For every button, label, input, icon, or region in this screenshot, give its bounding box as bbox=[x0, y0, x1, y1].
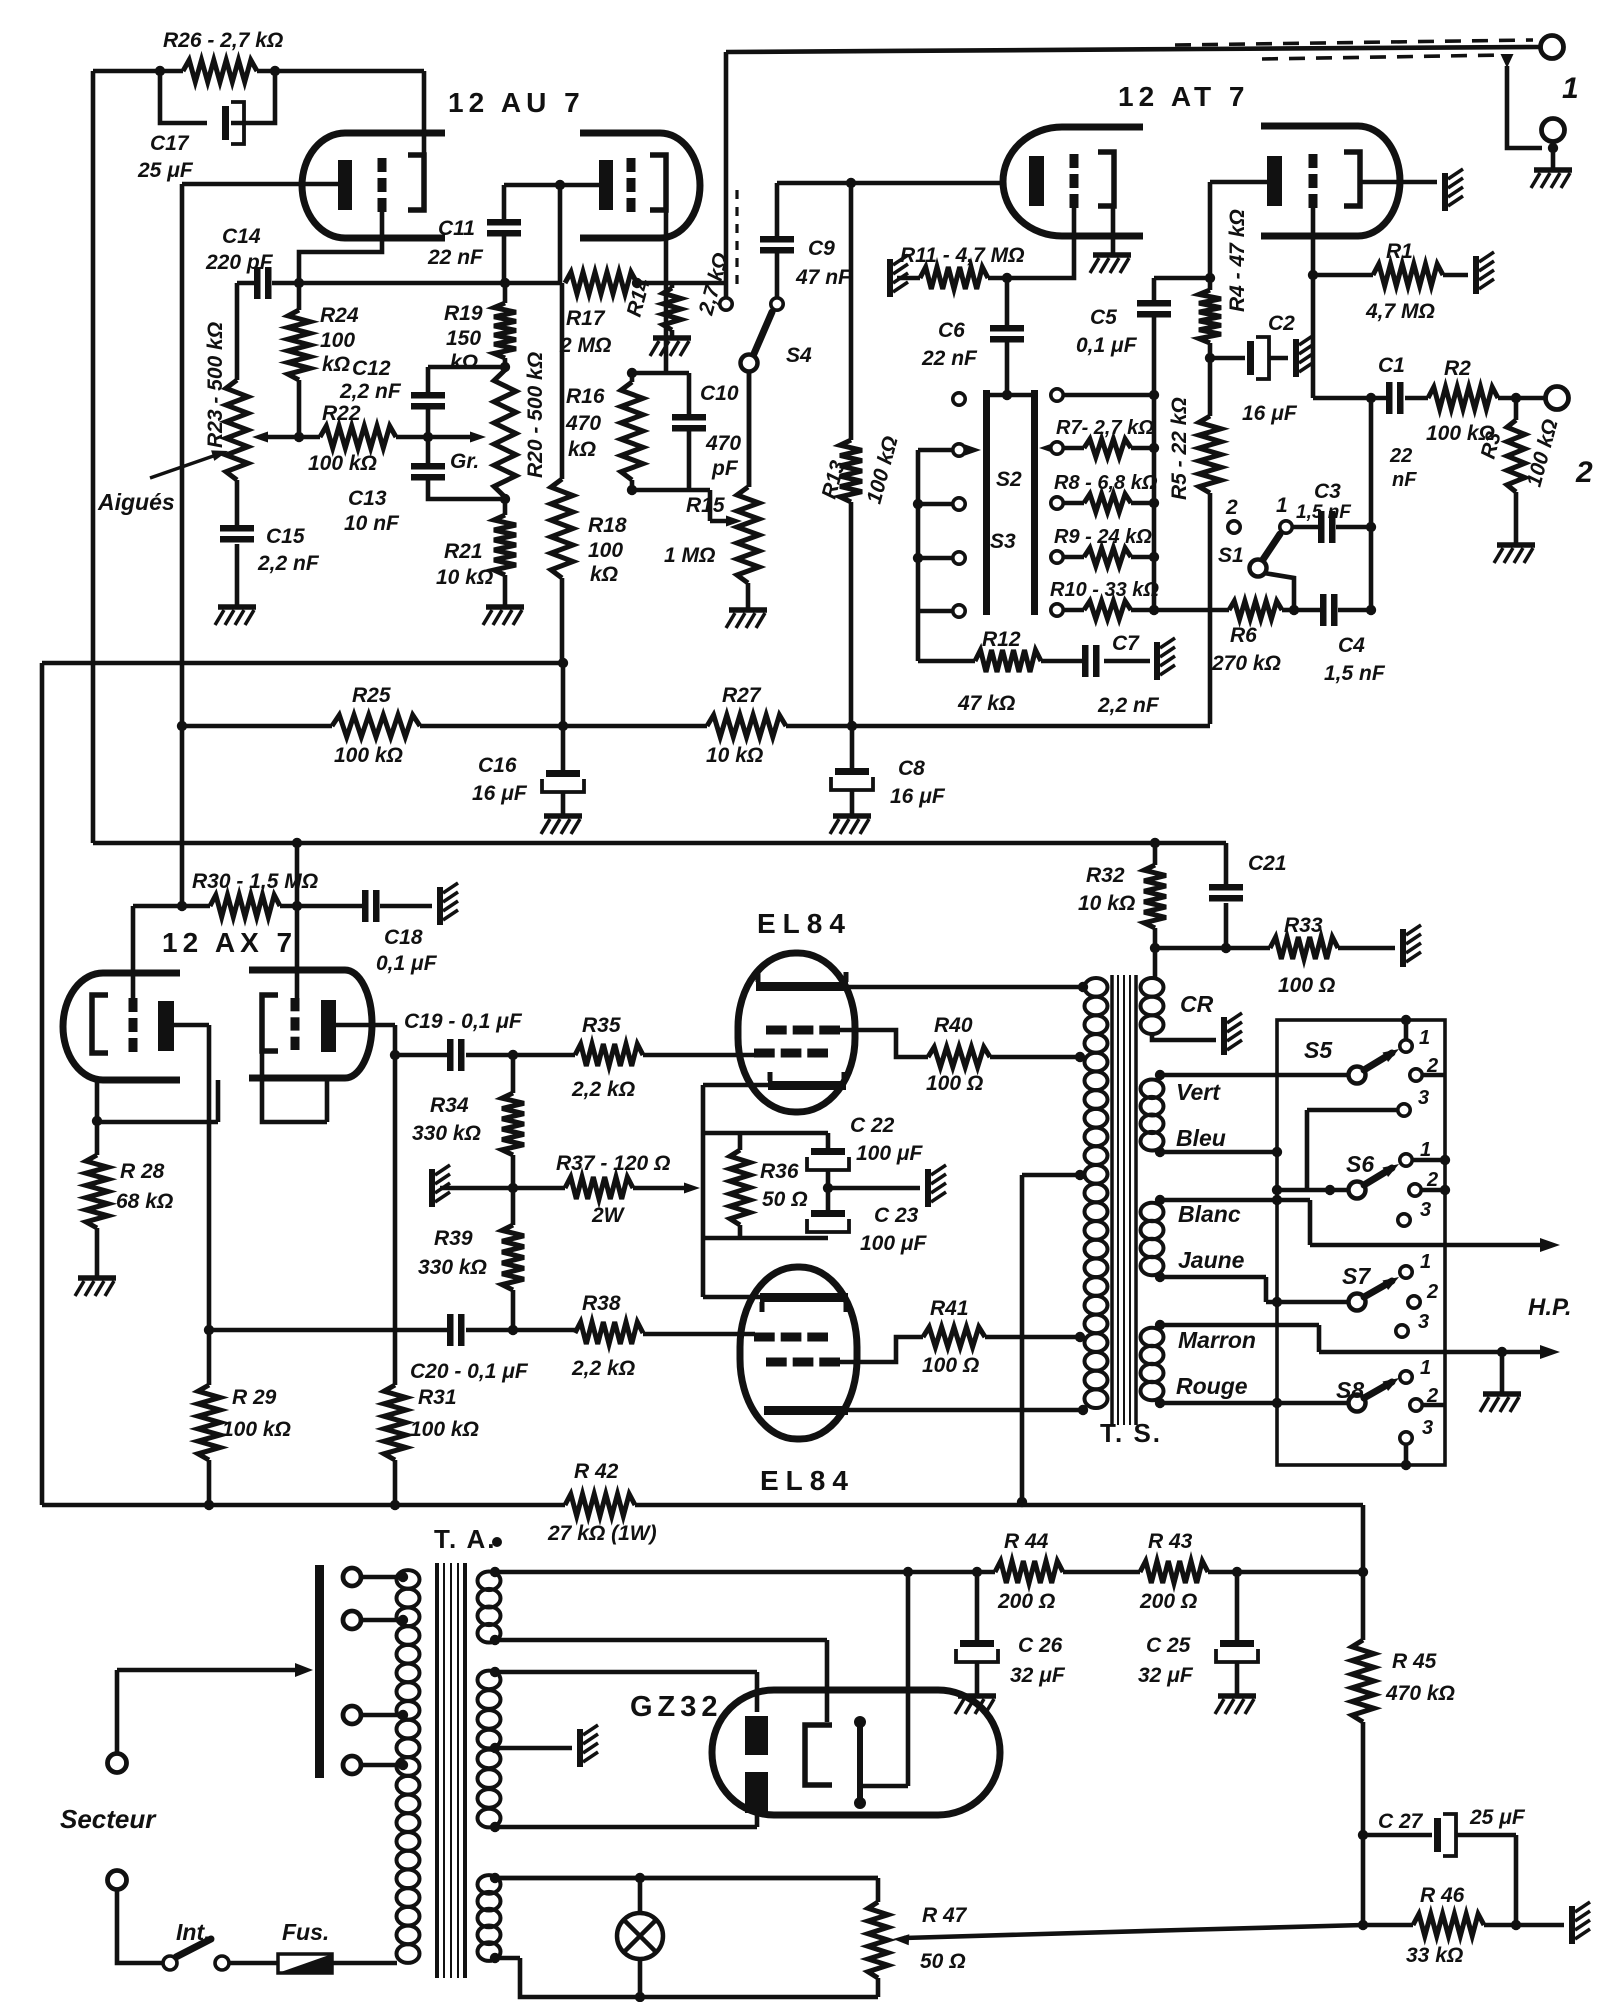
switch S5 lever bbox=[1364, 1053, 1392, 1070]
svg-text:100 μF: 100 μF bbox=[856, 1142, 924, 1165]
chassis C7 bbox=[1154, 642, 1160, 680]
capacitor C27 bbox=[1434, 1818, 1441, 1852]
switch Int lever bbox=[176, 1939, 211, 1957]
node lamp top bbox=[635, 1873, 645, 1883]
transformer TA heater63 winding bbox=[478, 1875, 501, 1894]
node row1 bbox=[1149, 443, 1159, 453]
svg-text:R5 - 22 kΩ: R5 - 22 kΩ bbox=[1168, 397, 1191, 500]
wire input shield dash bbox=[735, 190, 738, 292]
svg-text:470: 470 bbox=[565, 412, 601, 435]
wire U2b plate lead bbox=[1360, 180, 1437, 185]
node y183 R13 bbox=[846, 178, 856, 188]
svg-text:C17: C17 bbox=[150, 132, 190, 155]
wire fuse to winding bbox=[332, 1961, 397, 1966]
triode U2b grid bbox=[1309, 154, 1318, 168]
svg-text:3: 3 bbox=[1418, 1087, 1429, 1109]
node R6 right bbox=[1289, 605, 1299, 615]
wire secteur live drop bbox=[115, 1670, 120, 1752]
wire S6-2 right bbox=[1421, 1188, 1445, 1193]
wire R36 rails bbox=[703, 1133, 828, 1238]
svg-text:C 23: C 23 bbox=[874, 1204, 919, 1227]
node S6 box left bbox=[1272, 1185, 1282, 1195]
node TS bottom bbox=[1078, 1405, 1088, 1415]
svg-text:C10: C10 bbox=[700, 382, 739, 405]
wire R41 right bbox=[985, 1335, 1080, 1340]
transformer TS CR winding bbox=[1141, 978, 1164, 997]
svg-text:200 Ω: 200 Ω bbox=[1139, 1590, 1197, 1613]
wire U3a cathode lead bbox=[174, 1025, 209, 1330]
terminal TA tap1 bbox=[343, 1568, 361, 1586]
switch S3 contact 4 bbox=[1051, 604, 1063, 616]
svg-text:C 22: C 22 bbox=[850, 1114, 895, 1137]
svg-text:R1: R1 bbox=[1386, 240, 1413, 263]
switch S8 contact 2 bbox=[1410, 1399, 1422, 1411]
svg-text:R16: R16 bbox=[566, 385, 605, 408]
wire C6 bbox=[1005, 278, 1010, 393]
svg-text:47 kΩ: 47 kΩ bbox=[957, 692, 1015, 715]
ground jacks bbox=[1534, 167, 1572, 173]
node C27 left bbox=[1358, 1830, 1368, 1840]
pentode V1 envelope bbox=[738, 953, 855, 1112]
node C21 bottom bbox=[1221, 943, 1231, 953]
ground C25 bbox=[1218, 1693, 1256, 1699]
wire VB bottom lead bbox=[1160, 1150, 1277, 1155]
capacitor C3 bbox=[1318, 511, 1325, 543]
svg-text:C 25: C 25 bbox=[1146, 1634, 1191, 1657]
svg-text:R35: R35 bbox=[582, 1014, 621, 1037]
svg-text:100 kΩ: 100 kΩ bbox=[410, 1418, 479, 1441]
node TA HT top bbox=[490, 1667, 500, 1677]
svg-text:22 nF: 22 nF bbox=[921, 347, 978, 370]
node MR top bbox=[1155, 1320, 1165, 1330]
svg-text:10 kΩ: 10 kΩ bbox=[436, 566, 493, 589]
svg-text:C8: C8 bbox=[898, 757, 925, 780]
ground R14 bbox=[653, 335, 691, 341]
wire HP arrow B bbox=[1319, 1350, 1548, 1355]
wire R22 left lead bbox=[262, 435, 320, 440]
node R16 bottom bbox=[627, 485, 637, 495]
arrow Aigues bbox=[150, 453, 222, 478]
node TA sec1 bottom bbox=[490, 1635, 500, 1645]
wire U1a plate to B+ bbox=[422, 71, 427, 155]
switch box outline bbox=[1277, 1020, 1445, 1465]
resistor R37 bbox=[565, 1177, 633, 1199]
ground R3 bbox=[1497, 542, 1535, 548]
wire S2 left bus bbox=[918, 450, 952, 661]
arrow input gnd bbox=[1501, 54, 1514, 68]
capacitor C1 bbox=[1386, 382, 1393, 414]
node R18 bottom bbox=[558, 658, 568, 668]
switch S6 contact 3 bbox=[1398, 1214, 1410, 1226]
transformer TS core bbox=[1110, 975, 1114, 1425]
wire R4 R5 bbox=[1208, 343, 1213, 416]
switch S4 contact b bbox=[771, 298, 783, 310]
svg-text:pF: pF bbox=[711, 457, 739, 480]
triode U2a grid bbox=[1070, 154, 1079, 168]
svg-text:C18: C18 bbox=[384, 926, 423, 949]
wire C8 bbox=[850, 726, 855, 814]
svg-text:R 46: R 46 bbox=[1420, 1884, 1465, 1907]
svg-text:CR: CR bbox=[1180, 991, 1214, 1017]
node R17 right bbox=[632, 278, 642, 288]
svg-text:25 μF: 25 μF bbox=[1469, 1806, 1526, 1829]
svg-text:C11: C11 bbox=[438, 217, 475, 240]
capacitor C18 bbox=[362, 890, 369, 922]
svg-text:nF: nF bbox=[1392, 469, 1417, 491]
svg-text:R33: R33 bbox=[1284, 914, 1323, 937]
svg-text:Blanc: Blanc bbox=[1178, 1201, 1241, 1227]
svg-text:C2: C2 bbox=[1268, 312, 1295, 335]
node C2 bbox=[1205, 353, 1215, 363]
wire C2 link bbox=[1210, 356, 1288, 361]
terminal jack1b bbox=[1542, 119, 1565, 142]
svg-text:Rouge: Rouge bbox=[1176, 1373, 1248, 1399]
node TS tap R41 bbox=[1075, 1332, 1085, 1342]
svg-text:200 Ω: 200 Ω bbox=[997, 1590, 1055, 1613]
svg-text:33 kΩ: 33 kΩ bbox=[1406, 1944, 1463, 1967]
wire R25 line bbox=[182, 724, 563, 729]
wire S5-1 up bbox=[1404, 1020, 1409, 1040]
pentode V1 g2 bbox=[766, 1026, 787, 1035]
switch S3 contact 2 bbox=[1051, 497, 1063, 509]
node C26 top bbox=[972, 1567, 982, 1577]
svg-text:32 μF: 32 μF bbox=[1138, 1664, 1194, 1687]
terminal secteur 1 bbox=[108, 1754, 127, 1773]
switch Int contact a bbox=[163, 1956, 177, 1970]
wire y183 line bbox=[777, 181, 1003, 186]
svg-text:10 kΩ: 10 kΩ bbox=[706, 744, 763, 767]
wire R47 wiper line bbox=[904, 1925, 1363, 1938]
wire C26 bbox=[975, 1572, 980, 1694]
pentode V2 plate bbox=[764, 1406, 848, 1415]
wire C19 line bbox=[395, 1053, 513, 1058]
svg-text:R12: R12 bbox=[982, 628, 1021, 651]
resistor R27 bbox=[707, 715, 786, 737]
rectifier GZ32 anode1 bbox=[745, 1716, 768, 1755]
wire Gr wiper bbox=[428, 435, 472, 440]
svg-text:2: 2 bbox=[1426, 1281, 1438, 1303]
svg-text:12 AU 7: 12 AU 7 bbox=[448, 87, 585, 118]
wire U2a plate gnd bbox=[1111, 206, 1116, 253]
wire CT feed bbox=[1020, 1175, 1025, 1502]
svg-text:1: 1 bbox=[1419, 1027, 1430, 1049]
node C16 top bbox=[558, 721, 568, 731]
svg-text:470: 470 bbox=[705, 432, 741, 455]
wire U3a plate drop bbox=[95, 1080, 100, 1121]
resistor R7 bbox=[1063, 446, 1154, 451]
switch Int contact b bbox=[215, 1956, 229, 1970]
node S8-3 bottom bbox=[1401, 1460, 1411, 1470]
wire secteur live bbox=[117, 1668, 303, 1673]
wire V1 g2 lead bbox=[840, 1030, 928, 1057]
wire S5-2 right bbox=[1422, 1073, 1445, 1078]
node cathode2 bbox=[555, 180, 565, 190]
node MR box left bbox=[1272, 1398, 1282, 1408]
node R45 top bbox=[1358, 1567, 1368, 1577]
wire bus y843 bbox=[93, 71, 1226, 843]
switch S4 lever bbox=[753, 312, 772, 356]
wire R38 line bbox=[513, 1330, 755, 1334]
wire GZ32 cathode lead bbox=[860, 1572, 908, 1786]
svg-text:C4: C4 bbox=[1338, 634, 1365, 657]
wire bus x182 bbox=[180, 184, 185, 905]
wire S6-1 right bbox=[1412, 1158, 1445, 1163]
svg-text:S3: S3 bbox=[990, 530, 1016, 553]
svg-text:12 AT 7: 12 AT 7 bbox=[1118, 81, 1249, 112]
svg-text:32 μF: 32 μF bbox=[1010, 1664, 1066, 1687]
node BJ top bbox=[1155, 1195, 1165, 1205]
switch S1 pole bbox=[1250, 560, 1267, 577]
svg-text:Vert: Vert bbox=[1176, 1079, 1221, 1105]
node TA tap1 bbox=[398, 1572, 408, 1582]
capacitor C9 bbox=[760, 236, 794, 243]
triode U2a cathode bbox=[1029, 156, 1044, 206]
capacitor C19 bbox=[447, 1039, 454, 1071]
node VB top bbox=[1155, 1070, 1165, 1080]
switch S3 wiper arrow bbox=[1048, 446, 1050, 450]
svg-text:100 kΩ: 100 kΩ bbox=[222, 1418, 291, 1441]
wire C3 right bbox=[1336, 525, 1371, 530]
svg-text:3: 3 bbox=[1418, 1311, 1429, 1333]
switch S8 pole bbox=[1349, 1395, 1366, 1412]
svg-text:R34: R34 bbox=[430, 1094, 469, 1117]
triode U2b cathode bbox=[1267, 156, 1282, 206]
svg-text:R18: R18 bbox=[588, 514, 627, 537]
wire y282 line bbox=[299, 281, 560, 286]
wire C12 top link bbox=[428, 365, 505, 370]
rectifier GZ32 anode2 bbox=[745, 1772, 768, 1813]
node R28 top bbox=[92, 1116, 102, 1126]
svg-text:2,2 kΩ: 2,2 kΩ bbox=[571, 1357, 635, 1380]
resistor R1 bbox=[1373, 264, 1443, 286]
transformer TA core bbox=[435, 1563, 439, 1978]
transformer TS VertBleu winding bbox=[1141, 1080, 1164, 1099]
triode U3b envelope bbox=[249, 970, 372, 1078]
svg-text:3: 3 bbox=[1422, 1417, 1433, 1439]
potentiometer R23 bbox=[226, 380, 248, 480]
svg-text:27 kΩ (1W): 27 kΩ (1W) bbox=[547, 1522, 657, 1545]
capacitor C25 bbox=[1220, 1640, 1254, 1647]
svg-text:330 kΩ: 330 kΩ bbox=[412, 1122, 481, 1145]
wire U1a grid jog bbox=[299, 212, 382, 283]
chassis C2 bbox=[1293, 339, 1299, 377]
resistor R3 bbox=[1514, 398, 1519, 543]
resistor R26 bbox=[183, 60, 257, 82]
resistor R46 bbox=[1413, 1914, 1484, 1936]
svg-text:2: 2 bbox=[1575, 456, 1593, 489]
svg-text:16 μF: 16 μF bbox=[472, 782, 528, 805]
wire C22 gnd bbox=[828, 1186, 920, 1191]
wire U3b cathode jog bbox=[262, 1051, 327, 1122]
svg-text:47 nF: 47 nF bbox=[795, 266, 852, 289]
switch S5 contact 1 bbox=[1400, 1040, 1412, 1052]
svg-text:R 28: R 28 bbox=[120, 1160, 165, 1183]
node TA HT bottom bbox=[490, 1822, 500, 1832]
wire S2S3 top link bbox=[986, 393, 1034, 398]
triode U3a cathode bbox=[158, 1001, 174, 1051]
svg-text:1: 1 bbox=[1420, 1357, 1431, 1379]
ground R15 bbox=[729, 607, 767, 613]
svg-text:R7- 2,7 kΩ: R7- 2,7 kΩ bbox=[1056, 417, 1154, 439]
node R32 top bbox=[1150, 838, 1160, 848]
triode U3a plate bbox=[92, 995, 108, 1053]
wire S8-3 down bbox=[1404, 1444, 1409, 1465]
svg-text:50 Ω: 50 Ω bbox=[920, 1950, 966, 1973]
chassis R46 bbox=[1569, 1906, 1575, 1944]
svg-text:R40: R40 bbox=[934, 1014, 973, 1037]
node C25 top bbox=[1232, 1567, 1242, 1577]
wire input dash above bbox=[1175, 40, 1533, 45]
svg-text:Secteur: Secteur bbox=[60, 1804, 157, 1834]
capacitor C2 bbox=[1247, 341, 1254, 375]
switch S1 contact 2 bbox=[1228, 521, 1240, 533]
svg-text:EL84: EL84 bbox=[760, 1465, 855, 1496]
wire S4 input line bbox=[724, 52, 729, 298]
svg-text:100 Ω: 100 Ω bbox=[926, 1072, 983, 1095]
svg-text:R39: R39 bbox=[434, 1227, 473, 1250]
svg-text:3: 3 bbox=[1420, 1199, 1431, 1221]
node row2 bbox=[1149, 498, 1159, 508]
svg-text:100 Ω: 100 Ω bbox=[1278, 974, 1335, 997]
resistor R4 bbox=[1199, 290, 1221, 343]
resistor R30 bbox=[210, 895, 280, 917]
svg-text:4,7 MΩ: 4,7 MΩ bbox=[1365, 300, 1435, 323]
node TA HT ct bbox=[490, 1743, 500, 1753]
pentode V1 plate bbox=[756, 982, 848, 991]
capacitor C12 bbox=[411, 392, 445, 399]
svg-text:R 43: R 43 bbox=[1148, 1530, 1193, 1553]
svg-text:50 Ω: 50 Ω bbox=[762, 1188, 808, 1211]
svg-text:R27: R27 bbox=[722, 684, 762, 707]
wire right grid drop bbox=[295, 843, 300, 1000]
triode U1b plate bbox=[650, 155, 666, 210]
capacitor C11 bbox=[487, 219, 521, 226]
chassis R37 bbox=[429, 1169, 435, 1207]
pentode V1 cathode bbox=[768, 1081, 846, 1090]
switch S7 pole bbox=[1349, 1294, 1366, 1311]
resistor R22 bbox=[320, 426, 396, 448]
svg-text:2,2 nF: 2,2 nF bbox=[339, 380, 402, 403]
triode U1a cathode bbox=[338, 160, 352, 210]
switch S2 contact 0 bbox=[953, 393, 965, 405]
wire C9 bbox=[775, 183, 780, 297]
svg-text:R6: R6 bbox=[1230, 624, 1257, 647]
node VB box left bbox=[1272, 1147, 1282, 1157]
svg-text:100 kΩ: 100 kΩ bbox=[334, 744, 403, 767]
resistor R14 bbox=[670, 283, 675, 336]
wire R46 line bbox=[1363, 1923, 1564, 1928]
wire R12 line bbox=[918, 659, 1150, 664]
terminal TA tap2 bbox=[343, 1611, 361, 1629]
svg-text:S8: S8 bbox=[1336, 1377, 1364, 1403]
wire R5 down bbox=[1208, 493, 1213, 724]
node TA tap3 bbox=[398, 1710, 408, 1720]
ground R28 bbox=[78, 1275, 116, 1281]
wire U1b cathode lead bbox=[560, 183, 599, 188]
capacitor C23 bbox=[811, 1210, 845, 1217]
svg-text:C14: C14 bbox=[222, 225, 261, 248]
wire R37 line bbox=[440, 1186, 692, 1191]
switch S2 wiper arrow bbox=[966, 448, 970, 452]
transformer TA HT winding bbox=[478, 1671, 501, 1690]
node R26 right bbox=[270, 66, 280, 76]
svg-text:R 29: R 29 bbox=[232, 1386, 277, 1409]
wire row4 to R6 bbox=[1154, 608, 1229, 613]
capacitor C16 bbox=[546, 770, 580, 777]
svg-text:R2: R2 bbox=[1444, 357, 1471, 380]
svg-text:1: 1 bbox=[1276, 494, 1288, 517]
wire TA HT top lead bbox=[495, 1672, 757, 1712]
transformer TS primary bbox=[1085, 978, 1108, 997]
svg-text:R20 - 500 kΩ: R20 - 500 kΩ bbox=[524, 352, 547, 478]
svg-text:Int.: Int. bbox=[176, 1919, 211, 1945]
node row4 bbox=[1149, 605, 1159, 615]
svg-text:R21: R21 bbox=[444, 540, 483, 563]
capacitor C13 bbox=[411, 463, 445, 470]
wire y373 plate node bbox=[632, 371, 689, 376]
lamp pilot bbox=[617, 1913, 663, 1959]
svg-text:C7: C7 bbox=[1112, 632, 1140, 655]
triode U1a plate bbox=[408, 155, 424, 210]
ground U2a plate bbox=[1093, 252, 1131, 258]
wire HP arrow A bbox=[1310, 1243, 1548, 1248]
svg-text:R38: R38 bbox=[582, 1292, 621, 1315]
svg-text:100: 100 bbox=[320, 329, 355, 352]
pentode V2 cathode bbox=[760, 1293, 848, 1302]
chassis R33 bbox=[1400, 929, 1406, 967]
pentode V1 g1 bbox=[754, 1049, 775, 1058]
svg-text:2,2 kΩ: 2,2 kΩ bbox=[571, 1078, 635, 1101]
svg-text:1,5 nF: 1,5 nF bbox=[1296, 502, 1352, 523]
svg-text:1: 1 bbox=[1562, 72, 1579, 105]
triode U1a envelope bbox=[302, 133, 445, 238]
triode U3b cathode bbox=[321, 1000, 336, 1052]
wire U2b grid down bbox=[1311, 208, 1316, 398]
resistor R9 bbox=[1063, 555, 1154, 560]
wire R35 line bbox=[513, 1053, 755, 1058]
capacitor C20 bbox=[447, 1314, 454, 1346]
resistor R38 bbox=[575, 1322, 643, 1344]
wire CR bottom bbox=[1152, 1034, 1216, 1040]
wire left grid drop bbox=[131, 906, 136, 1000]
switch S6 contact 1 bbox=[1400, 1154, 1412, 1166]
wire y283 to S4 bbox=[637, 281, 726, 286]
wire R15 bottom bbox=[746, 583, 751, 608]
svg-text:C9: C9 bbox=[808, 237, 835, 260]
svg-text:kΩ: kΩ bbox=[450, 351, 478, 374]
wire R31 drop bbox=[393, 1055, 398, 1385]
node S5-1 top bbox=[1401, 1015, 1411, 1025]
resistor R19 bbox=[503, 283, 508, 367]
switch S6 contact 2 bbox=[1409, 1184, 1421, 1196]
transformer TA selector bar bbox=[315, 1565, 324, 1778]
wire R22 right bbox=[396, 435, 428, 440]
ground C8 bbox=[833, 813, 871, 819]
svg-text:100 kΩ: 100 kΩ bbox=[308, 452, 377, 475]
pentode V2 g2 bbox=[766, 1358, 787, 1367]
svg-text:R19: R19 bbox=[444, 302, 483, 325]
svg-text:C19 - 0,1 μF: C19 - 0,1 μF bbox=[404, 1010, 523, 1033]
node bus 504 bbox=[913, 499, 923, 509]
resistor R41 bbox=[923, 1327, 985, 1347]
wire TA HT ct lead bbox=[495, 1746, 572, 1751]
wire C1 line bbox=[1313, 396, 1428, 401]
ground C16 bbox=[544, 813, 582, 819]
transformer TA heater5 winding bbox=[478, 1572, 501, 1591]
wire ladder row0 bbox=[1063, 393, 1154, 398]
wire S8-2 right bbox=[1422, 1403, 1445, 1408]
switch S8 lever bbox=[1364, 1382, 1392, 1398]
